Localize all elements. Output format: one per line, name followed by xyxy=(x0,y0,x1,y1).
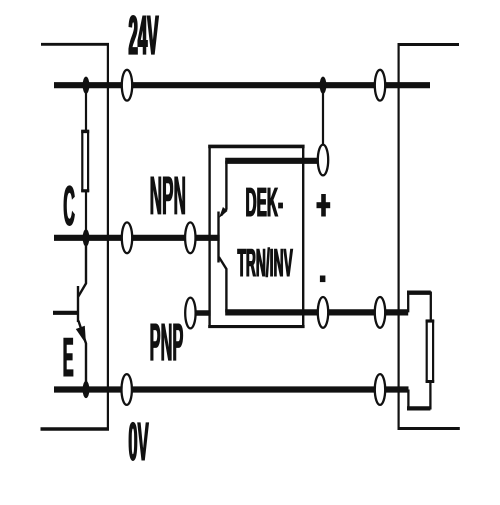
label 24V xyxy=(129,16,158,54)
label C xyxy=(64,186,74,226)
terminal minus xyxy=(318,297,328,328)
label 0V xyxy=(129,422,149,460)
load resistor R2 top bracket xyxy=(408,293,431,321)
transistor Q1 base bar xyxy=(77,286,79,322)
junction dot 24V right xyxy=(320,77,327,94)
terminal 24V right xyxy=(375,70,385,101)
wire minus line xyxy=(225,309,408,315)
transistor Q1 collector lead xyxy=(78,238,86,297)
label NPN xyxy=(151,177,185,214)
wire 24V junction down to plus terminal xyxy=(322,85,324,150)
terminal 0V right xyxy=(375,374,385,405)
right device rail xyxy=(398,43,400,429)
wire vertical from 24V to resistor R1 xyxy=(85,85,87,132)
terminal PNP xyxy=(185,298,195,329)
transistor Q1 base lead xyxy=(53,311,78,315)
terminal 0V left xyxy=(122,374,132,405)
junction dot 0V xyxy=(83,381,90,398)
terminal NPN right xyxy=(185,222,195,253)
terminal plus xyxy=(318,145,328,176)
transistor Q2 top lead (emitter from plus wire) xyxy=(221,161,226,216)
transistor Q2 emitter arrow into base xyxy=(219,207,228,218)
label minus sign xyxy=(320,276,326,283)
wire 0V bus xyxy=(54,386,409,392)
transistor Q2 collector lead down to minus wire xyxy=(219,257,227,312)
DEK-TRN/INV module box U1 xyxy=(210,146,304,326)
load resistor R2 body xyxy=(427,321,433,382)
top-left corner line xyxy=(41,43,109,46)
wire PNP stub xyxy=(190,310,210,316)
terminal minus right xyxy=(375,297,385,328)
junction dot 24V left xyxy=(83,77,90,94)
label PNP xyxy=(151,324,183,361)
bottom-right corner line xyxy=(398,427,460,430)
transistor Q1 emitter lead xyxy=(78,321,86,390)
bottom-left corner line xyxy=(41,427,110,431)
terminal NPN left xyxy=(122,222,132,253)
terminal 24V left xyxy=(122,70,132,101)
wire 24V bus xyxy=(54,82,430,88)
transistor Q2 base bar xyxy=(217,212,219,263)
resistor R1 xyxy=(82,131,88,190)
junction dot NPN xyxy=(83,229,90,246)
left device rail xyxy=(107,43,109,429)
load resistor R2 bottom bracket xyxy=(408,381,430,409)
wire resistor to NPN line xyxy=(85,192,87,238)
label E xyxy=(64,338,73,376)
label DEK- xyxy=(247,188,283,216)
top-right corner line xyxy=(398,43,460,46)
wire NPN line xyxy=(54,235,220,241)
wire plus inner top xyxy=(225,158,320,164)
transistor Q1 emitter arrow xyxy=(76,326,86,344)
label plus sign xyxy=(321,194,326,217)
label TRNINV xyxy=(238,248,293,277)
